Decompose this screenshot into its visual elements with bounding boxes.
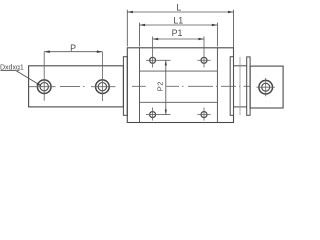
svg-text:P1: P1 (172, 28, 183, 38)
svg-text:P2: P2 (155, 81, 164, 91)
right end-seal plate of carriage (230, 57, 233, 116)
svg-text:L: L (176, 3, 181, 13)
carriage hole top-left (150, 57, 156, 63)
rail body (left, plan view) (29, 66, 124, 107)
carriage end-cap boundary left (139, 48, 141, 123)
dimension P2 (vertical) (165, 60, 167, 114)
rail stub right of carriage (234, 66, 247, 107)
dimension P (44, 50, 102, 53)
carriage block outer (127, 48, 233, 123)
carriage inner horizontal bottom (140, 101, 218, 103)
inner plate edge (faint) (239, 57, 241, 115)
carriage end-cap boundary right (216, 48, 218, 123)
carriage centerline (dash-dot) (132, 85, 250, 87)
carriage inner horizontal top (140, 70, 218, 72)
rail hole 1 centerlines (29, 52, 56, 101)
dimension P1 (153, 38, 204, 41)
end mount body (square) (250, 66, 283, 108)
end mount hole centerlines (257, 78, 275, 96)
svg-text:L1: L1 (173, 16, 183, 26)
dimension L1 (140, 23, 218, 47)
svg-text:P: P (70, 43, 76, 53)
carriage hole bottom-right (201, 112, 207, 118)
end mount hole (259, 80, 273, 94)
carriage hole bottom-left (150, 112, 156, 118)
rail centerline (dash-dot) (60, 85, 85, 87)
end mount plate (thin, edge-on) (247, 57, 250, 115)
left end-seal plate of carriage (123, 57, 127, 116)
leader line (1, 71, 42, 87)
carriage hole top-right (201, 57, 207, 63)
carriage hole centerlines (146, 36, 211, 120)
dimension L (127, 10, 233, 116)
rail hole 2 (counterbored) (96, 80, 110, 94)
rail hole 1 (counterbored DxdxG) (37, 80, 51, 94)
rail hole 2 centerlines (91, 52, 115, 101)
